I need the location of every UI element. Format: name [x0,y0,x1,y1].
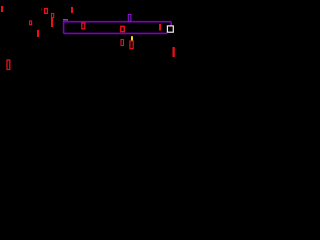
wire top edge of highlighted net [64,21,172,23]
component pin pad P2 (red bar) [37,30,39,37]
wire left edge of highlighted net [63,21,65,33]
resistor R3 (red outline box) [52,14,54,18]
component pin pad P5 (red bar near right end) [159,24,161,31]
bus entry connector B1 (purple outline box on top wire) [128,15,131,22]
resistor R7 (red outline box under yellow pin) [130,41,133,49]
wire endpoint handle (white square) [167,26,173,32]
component pin pad P4 (red bar above bus) [71,7,73,13]
bus entry segment (bright purple tick) [63,19,68,21]
resistor R6 (red outline box below bus) [121,40,124,46]
resistor R5 (red outline box above bottom wire) [121,26,124,31]
resistor R4 (red outline box hanging from top wire) [82,23,85,29]
wire right edge of highlighted net [170,22,172,27]
resistor R1 (red outline box) [45,9,48,14]
component pin pad P6 (red bar bottom right) [173,47,175,57]
pin stub (faint red speck) [41,9,42,11]
resistor R8 (red outline box bottom-left) [7,60,10,70]
component pin pad P3 (red bar below R3) [51,18,53,27]
wire bottom edge of highlighted net [64,32,168,34]
component pin pad P1 (top-left red bar) [1,6,3,12]
pin highlight (yellow bar) [131,36,133,40]
resistor R2 (small red outline box) [30,21,32,25]
